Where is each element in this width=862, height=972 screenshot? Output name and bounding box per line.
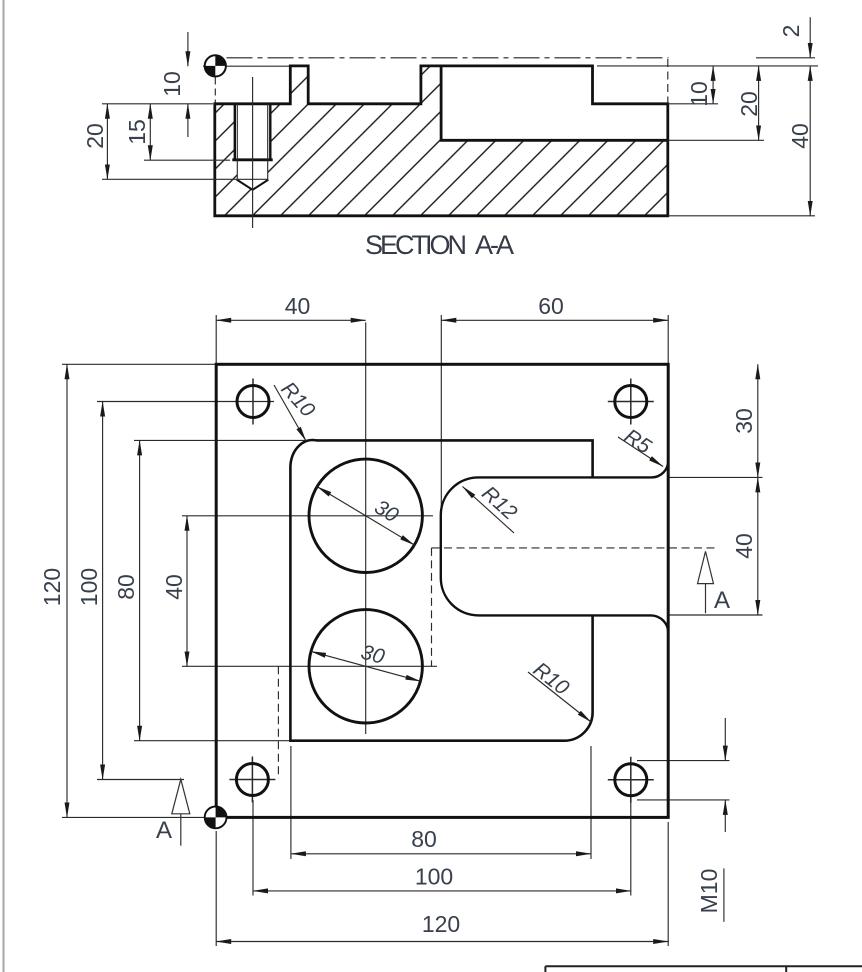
60 ext / slot left xyxy=(440,315,442,583)
part outline xyxy=(215,66,668,216)
R labels with leaders xyxy=(274,385,663,722)
section cut dashed line xyxy=(278,548,718,779)
left column ext lines xyxy=(62,363,216,365)
dim 40 top xyxy=(216,319,366,321)
svg-text:2: 2 xyxy=(778,25,804,38)
M10 dim xyxy=(637,760,730,762)
hidden dashed edge at right xyxy=(667,59,669,103)
ext lines xyxy=(102,103,213,105)
dim 20 xyxy=(106,104,108,180)
title block xyxy=(545,966,862,972)
hole centerline vertical xyxy=(365,322,367,734)
svg-text:M10: M10 xyxy=(696,869,722,914)
dim 2 xyxy=(809,17,811,58)
top surface extension line through datum circle xyxy=(203,65,290,67)
pocket outline xyxy=(316,440,593,477)
datum chain line xyxy=(227,57,669,59)
svg-text:120: 120 xyxy=(422,911,460,937)
bottom dims ext xyxy=(290,746,292,859)
corner hole crosshairs xyxy=(229,379,653,803)
svg-text:30: 30 xyxy=(731,408,757,434)
svg-text:100: 100 xyxy=(415,864,453,890)
svg-text:80: 80 xyxy=(113,574,139,600)
hatched cut area xyxy=(215,66,668,216)
slot outline xyxy=(441,461,669,633)
datum target symbol (plan) xyxy=(205,807,227,829)
section arrows A xyxy=(172,551,714,845)
svg-text:20: 20 xyxy=(82,123,108,149)
60 right ext xyxy=(667,315,669,364)
dim 10 left: outside arrows xyxy=(187,32,189,66)
big holes d30 xyxy=(309,459,422,572)
svg-text:80: 80 xyxy=(411,826,437,852)
left column dims xyxy=(66,364,68,817)
right dims xyxy=(597,17,818,216)
svg-text:100: 100 xyxy=(76,568,102,606)
thin extension/center lines xyxy=(62,315,763,946)
svg-text:10: 10 xyxy=(159,71,185,97)
right side dims 30/40 xyxy=(669,476,763,478)
svg-text:A: A xyxy=(156,817,172,844)
left dims xyxy=(102,32,268,179)
dim 15 xyxy=(149,104,151,160)
svg-text:40: 40 xyxy=(161,574,187,600)
svg-text:40: 40 xyxy=(787,123,813,149)
right pocket wall and floor xyxy=(441,66,668,140)
outer square xyxy=(216,364,668,817)
dim 60 top xyxy=(441,319,668,321)
dim 10 right xyxy=(712,66,714,104)
svg-text:20: 20 xyxy=(736,91,762,117)
corner holes M10 xyxy=(237,386,269,418)
svg-text:15: 15 xyxy=(124,119,150,145)
svg-text:A: A xyxy=(714,587,730,614)
top dim 40 ext xyxy=(215,315,217,364)
svg-text:10: 10 xyxy=(686,81,712,107)
svg-text:SECTION A-A: SECTION A-A xyxy=(365,230,514,260)
d30 diagonal dims xyxy=(311,487,420,682)
datum target symbol (section) xyxy=(205,55,226,76)
tapped hole M10 xyxy=(232,77,272,228)
svg-text:40: 40 xyxy=(285,293,311,319)
dim 40 right xyxy=(809,66,811,216)
sheet border left xyxy=(3,0,5,972)
dashed line below datum circle xyxy=(214,78,216,104)
svg-text:120: 120 xyxy=(39,568,65,606)
svg-text:60: 60 xyxy=(538,293,564,319)
svg-text:40: 40 xyxy=(731,533,757,559)
dim 20 right xyxy=(758,66,760,140)
